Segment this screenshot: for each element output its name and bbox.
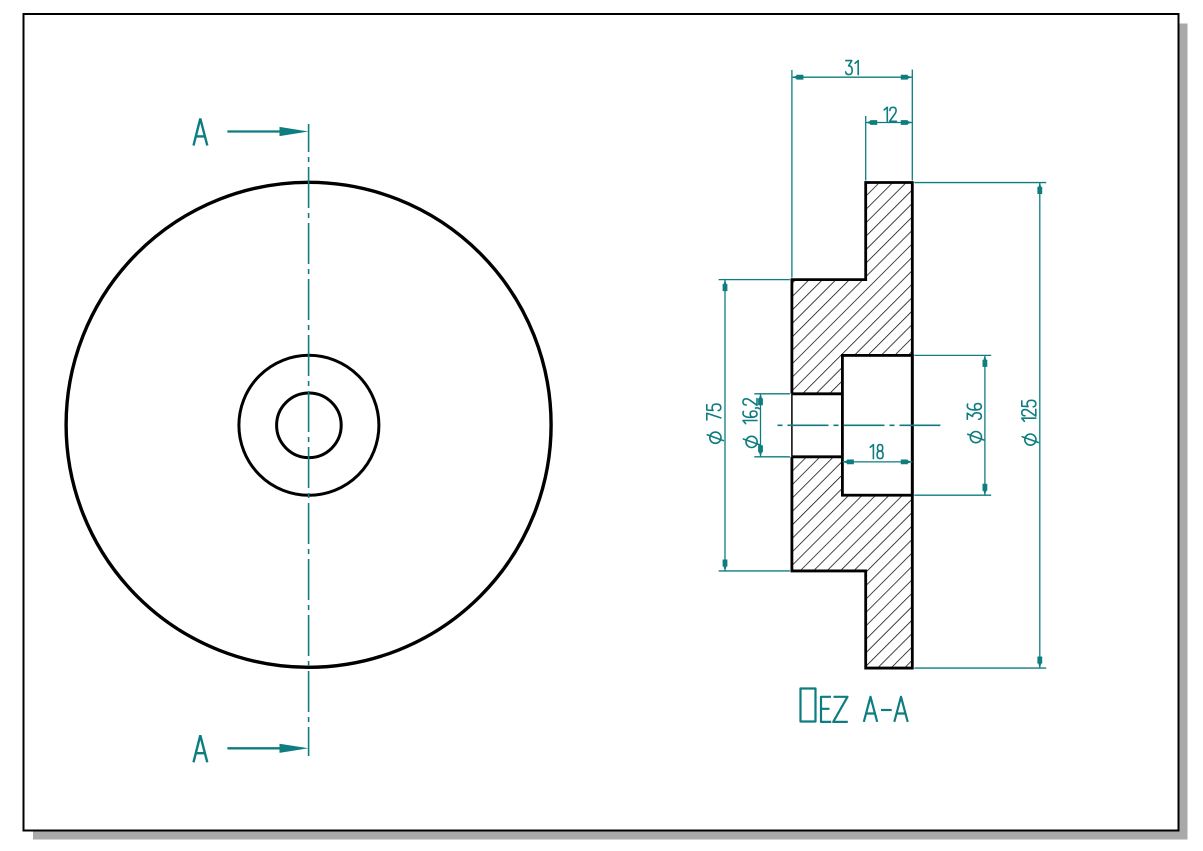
ext line D36 bottom: [914, 494, 991, 496]
text D16,2 rotated: [743, 399, 760, 448]
ext line D75 bottom: [719, 570, 790, 572]
dimension texts: [707, 61, 1039, 459]
text 18: [870, 445, 883, 459]
D125 arrows: [1037, 183, 1042, 195]
hatched material region: [792, 183, 912, 669]
dim line D75: [724, 280, 726, 571]
31 arrows: [792, 75, 804, 80]
dim line 18: [842, 461, 912, 463]
letter A: [894, 697, 907, 722]
web left face line across hole (thin): [791, 394, 793, 457]
dim line 12: [866, 122, 913, 124]
missing glyph box: [801, 689, 816, 722]
D16.2 arrows: [758, 394, 763, 406]
ext line D16.2 bottom: [754, 456, 790, 458]
ext line D125 top: [914, 182, 1046, 184]
hole D16.2 bottom edge: [792, 455, 843, 458]
middle circle D36: [239, 355, 379, 495]
section arrow top: [227, 130, 281, 132]
section outline: [792, 183, 912, 669]
horizontal centerline: [778, 424, 941, 426]
letter A: [864, 697, 877, 722]
dim line D36: [984, 355, 986, 495]
D36 arrows: [983, 355, 988, 367]
text D75 rotated: [707, 404, 724, 443]
ext line 12 left: [865, 116, 867, 181]
vertical centerline A-A: [308, 124, 310, 756]
hyphen: [881, 709, 892, 711]
label A top: [194, 119, 208, 146]
ext line D36 top: [914, 354, 991, 356]
dim line 31: [792, 76, 912, 78]
D75 arrows: [723, 280, 728, 292]
label A bottom: [194, 735, 208, 762]
ext line D125 bottom: [914, 667, 1046, 669]
hole D16.2 top edge: [792, 392, 843, 395]
dim line D16.2: [760, 394, 762, 457]
ext line D75 top: [719, 279, 790, 281]
outer circle D125: [66, 182, 551, 667]
ext line 31/12 right: [911, 70, 913, 181]
text D125 rotated: [1022, 400, 1039, 445]
12 arrows: [866, 120, 878, 125]
letter Z: [833, 697, 848, 722]
counterbore D36: [842, 355, 912, 495]
dim line D125: [1039, 183, 1041, 669]
text D36 rotated: [967, 404, 984, 443]
section arrow bottom: [227, 747, 281, 749]
18 arrows: [842, 460, 854, 465]
section title REZ A-A: [801, 689, 908, 722]
text 12: [884, 107, 896, 121]
letter E: [821, 697, 831, 722]
hole circle D16.2: [277, 393, 342, 458]
ext line 31 left: [791, 70, 793, 278]
text 31: [846, 61, 858, 75]
arrowheads: [723, 75, 1043, 668]
ext line D16.2 top: [754, 393, 790, 395]
